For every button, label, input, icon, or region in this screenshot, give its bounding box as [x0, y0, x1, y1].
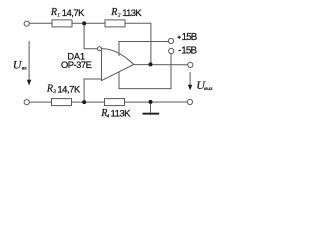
svg-text:14,7K: 14,7K	[57, 85, 80, 96]
svg-text:вых: вых	[204, 86, 213, 92]
svg-text:R: R	[50, 7, 57, 18]
svg-text:R: R	[110, 7, 117, 18]
svg-text:15В: 15В	[181, 45, 197, 56]
svg-text:113K: 113K	[122, 8, 142, 19]
svg-text:OP-37E: OP-37E	[61, 59, 92, 70]
svg-text:1: 1	[57, 14, 60, 19]
svg-text:15В: 15В	[182, 32, 198, 43]
svg-text:113K: 113K	[111, 109, 132, 120]
svg-text:вх: вх	[22, 66, 27, 72]
svg-text:R: R	[46, 84, 53, 95]
svg-text:14,7K: 14,7K	[62, 8, 85, 19]
